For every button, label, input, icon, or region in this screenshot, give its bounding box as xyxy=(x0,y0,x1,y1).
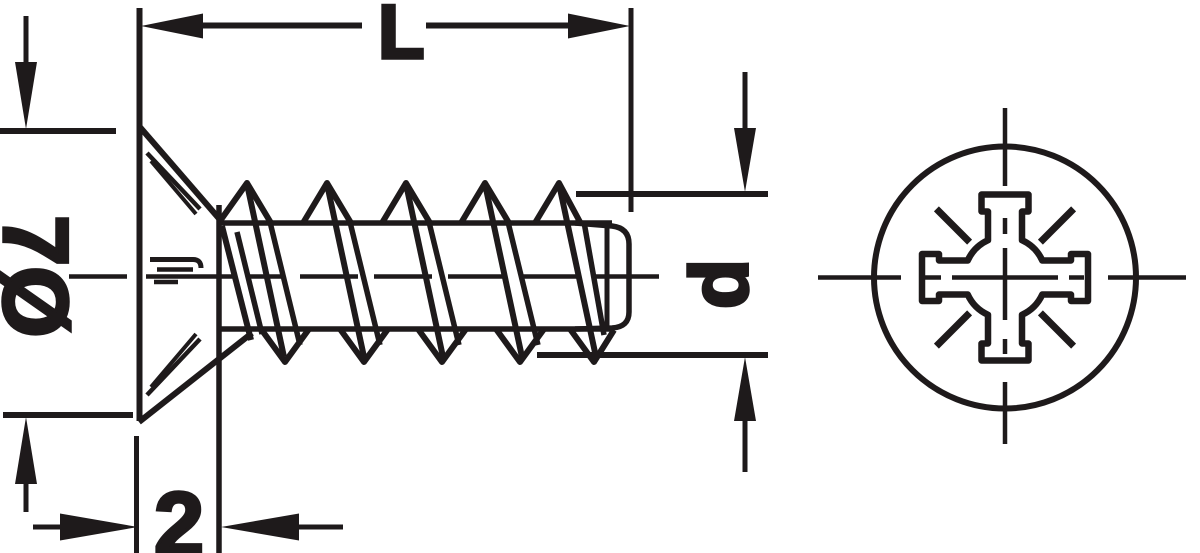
dimension L: left arrowhead xyxy=(141,14,203,39)
screw head: top chamfer highlight line 1 xyxy=(147,153,200,209)
dimension L: right arrowhead xyxy=(568,14,630,39)
dimension Ø7: top arrowhead (down) xyxy=(15,62,37,129)
thread: top crest teeth xyxy=(220,183,580,223)
front view: pozidriv recess outline xyxy=(922,195,1088,361)
screw head: recess depth flag middle line xyxy=(157,267,193,272)
screw head: bottom chamfer highlight line 2 xyxy=(151,334,196,387)
dimension L: right extension line xyxy=(629,8,634,212)
screw head: bottom chamfer highlight line 1 xyxy=(147,339,200,395)
dimension 2: right arrowhead (points left) xyxy=(221,514,299,541)
dimension 2: left arrow stem xyxy=(33,525,66,530)
front view: head outline circle xyxy=(874,147,1136,409)
svg-text:L: L xyxy=(378,0,424,75)
dimension Ø7: bottom extension line xyxy=(3,412,133,418)
thread: bottom crest teeth xyxy=(261,329,614,362)
front view: pozidriv diagonal ray SW xyxy=(936,313,969,346)
dimension d: bottom extension line xyxy=(537,352,768,358)
dimension 2: left extension line segment below head xyxy=(134,436,139,553)
front view: horizontal centerline (dash-dot) xyxy=(818,275,1186,280)
dimension d: bottom arrowhead (up) xyxy=(734,357,756,421)
thread: core bottom line xyxy=(221,326,612,332)
dimension d: top arrowhead (down) xyxy=(734,128,756,192)
dimension 2: left arrowhead (points right) xyxy=(60,514,138,541)
thread: tip cap inner vertical line xyxy=(605,225,610,328)
centerline of screw (dash-dot) xyxy=(69,274,659,279)
screw head: top chamfer highlight line 2 xyxy=(151,161,196,214)
dimension L: left extension line / head face line xyxy=(137,8,143,421)
dimension Ø7: bottom arrowhead (up) xyxy=(15,417,37,484)
front view: pozidriv diagonal ray NW xyxy=(936,209,969,242)
screw head: recess depth flag top line with hook xyxy=(150,260,201,269)
dimension d: top extension line xyxy=(576,191,768,197)
thread: blunt tip cap xyxy=(575,223,629,329)
thread: helix flank stripes (left edge, right edge, inner highlight) xyxy=(222,184,596,357)
svg-text:2: 2 xyxy=(154,475,204,553)
dimension L: dimension line right segment xyxy=(426,23,575,29)
screw head: countersunk cone bottom edge xyxy=(139,333,252,422)
dimension Ø7: top arrow stem xyxy=(24,16,29,68)
screw head / thread junction line + 2-dimension right extension xyxy=(216,205,222,553)
dimension d: bottom arrow stem xyxy=(743,416,748,472)
dimension Ø7: bottom arrow stem xyxy=(24,478,29,512)
dimension 2: right arrow stem xyxy=(292,525,343,530)
svg-text:d: d xyxy=(675,259,766,309)
front view: vertical centerline (dash-dot) xyxy=(1003,108,1008,444)
screw head: countersunk cone top edge xyxy=(139,126,222,222)
thread: core top line xyxy=(220,220,612,226)
screw head: recess depth flag lower dash xyxy=(154,280,178,285)
dimension Ø7: top extension line xyxy=(0,128,116,134)
front view: pozidriv diagonal ray NE xyxy=(1040,209,1073,242)
dimension L: dimension line left segment xyxy=(196,23,362,29)
dimension d: top arrow stem xyxy=(743,72,748,135)
front view: pozidriv diagonal ray SE xyxy=(1040,313,1073,346)
